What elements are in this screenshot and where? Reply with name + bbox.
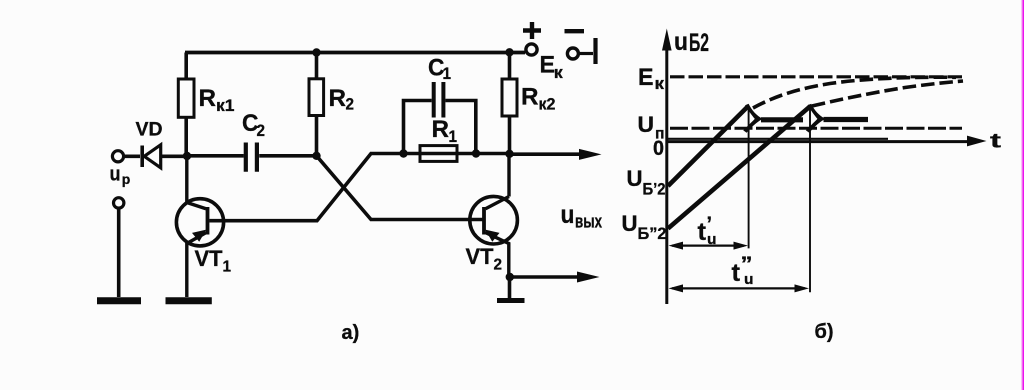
svg-text:Б2: Б2 <box>689 29 709 57</box>
svg-text:R: R <box>199 85 217 112</box>
svg-text:t: t <box>732 259 741 287</box>
svg-text:VT: VT <box>466 244 495 269</box>
svg-text:2: 2 <box>257 121 266 140</box>
svg-text:2: 2 <box>346 95 355 114</box>
svg-text:t: t <box>698 218 707 246</box>
svg-text:а): а) <box>342 322 360 344</box>
svg-text:U: U <box>638 112 655 137</box>
svg-text:2: 2 <box>494 257 503 274</box>
svg-text:R: R <box>329 85 347 112</box>
svg-text:Б”2: Б”2 <box>638 225 667 243</box>
svg-text:вых: вых <box>575 212 602 232</box>
svg-text:u: u <box>707 231 717 248</box>
svg-text:к: к <box>655 74 665 93</box>
svg-text:R: R <box>432 116 450 143</box>
svg-text:VT: VT <box>195 246 224 271</box>
svg-text:E: E <box>540 52 556 79</box>
svg-text:u: u <box>110 164 121 186</box>
svg-text:Б’2: Б’2 <box>643 181 666 199</box>
svg-text:к: к <box>554 63 564 82</box>
svg-text:1: 1 <box>443 64 452 83</box>
svg-text:p: p <box>122 172 131 187</box>
svg-text:E: E <box>638 64 654 91</box>
svg-text:1: 1 <box>449 127 458 146</box>
svg-text:U: U <box>622 211 638 236</box>
svg-text:1: 1 <box>223 259 232 276</box>
svg-text:к2: к2 <box>539 95 556 114</box>
svg-text:к1: к1 <box>216 96 235 115</box>
svg-text:t: t <box>990 131 1002 153</box>
svg-text:u: u <box>744 271 754 288</box>
svg-text:u: u <box>561 201 575 229</box>
svg-text:0: 0 <box>653 137 664 160</box>
svg-text:VD: VD <box>136 120 163 141</box>
svg-text:u: u <box>674 28 688 56</box>
svg-text:б): б) <box>815 321 834 343</box>
svg-text:R: R <box>521 84 539 111</box>
svg-text:U: U <box>627 166 643 191</box>
